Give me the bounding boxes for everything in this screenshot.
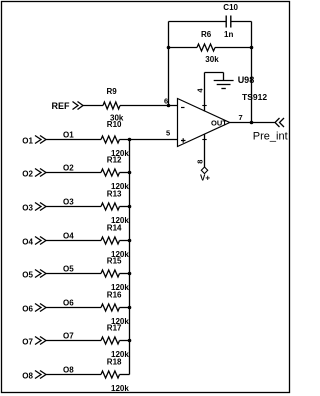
wire: O6 chevron to R16 xyxy=(46,307,101,309)
svg-text:R16: R16 xyxy=(107,291,122,300)
resistor R14 xyxy=(101,237,120,244)
svg-text:TS912: TS912 xyxy=(242,92,267,102)
junction: feedback at output node xyxy=(250,121,254,125)
wire: O1/R10 to op-amp pin 5 xyxy=(120,139,178,141)
port connector O7 (off-page chevron) xyxy=(35,337,46,345)
svg-text:8: 8 xyxy=(196,160,205,164)
svg-text:R12: R12 xyxy=(107,156,122,165)
svg-text:U98: U98 xyxy=(238,75,255,85)
port connector O6 (off-page chevron) xyxy=(35,304,46,312)
svg-text:R14: R14 xyxy=(107,224,122,233)
svg-text:C10: C10 xyxy=(223,3,238,12)
svg-text:O8: O8 xyxy=(63,366,74,375)
svg-text:R9: R9 xyxy=(107,87,118,96)
power symbol V+ diamond xyxy=(201,167,207,174)
svg-text:R15: R15 xyxy=(107,257,122,266)
wire: summing bus vertical xyxy=(129,140,131,375)
resistor R17 xyxy=(101,337,120,344)
junction: bus at row O7 xyxy=(128,339,132,343)
svg-text:R6: R6 xyxy=(201,30,212,39)
svg-text:R13: R13 xyxy=(107,190,122,199)
resistor R16 xyxy=(101,304,120,311)
svg-text:7: 7 xyxy=(239,113,243,122)
wire: O7 chevron to R17 xyxy=(46,340,101,342)
wire: R6 to feedback mid right segment xyxy=(215,47,252,49)
svg-text:30k: 30k xyxy=(205,55,219,64)
wire: O2 chevron to R12 xyxy=(46,172,101,174)
svg-text:O2: O2 xyxy=(63,164,74,173)
svg-text:O6: O6 xyxy=(22,304,33,313)
wire: feedback mid left segment to R6 xyxy=(169,47,198,49)
wire: O3 chevron to R13 xyxy=(46,206,101,208)
wire: feedback top left segment to C10 xyxy=(169,21,227,23)
junction: bus at row O3 xyxy=(128,205,132,209)
wire: op-amp output to off-page connector xyxy=(230,122,275,124)
svg-text:O2: O2 xyxy=(22,169,33,178)
wire: REF chevron to R9 xyxy=(83,105,103,107)
svg-text:REF: REF xyxy=(52,101,71,111)
svg-text:R18: R18 xyxy=(107,358,122,367)
wire: R15 to summing bus xyxy=(120,273,130,275)
resistor R18 xyxy=(101,371,120,378)
wire: R17 to summing bus xyxy=(120,340,130,342)
op-amp U98 triangle xyxy=(178,99,230,147)
junction: feedback at pin 6 node xyxy=(167,104,171,108)
svg-text:5: 5 xyxy=(166,129,170,138)
pin 4 tick at symbol edge xyxy=(202,105,206,107)
op-amp inverting input mark - xyxy=(181,107,185,109)
ground symbol stem xyxy=(223,73,225,81)
svg-text:O4: O4 xyxy=(63,232,74,241)
svg-text:O6: O6 xyxy=(63,299,74,308)
svg-text:O4: O4 xyxy=(22,237,33,246)
pin 8 tick at symbol edge xyxy=(202,139,206,141)
port connector O1 (off-page chevron) xyxy=(35,136,46,144)
wire: R12 to summing bus xyxy=(120,172,130,174)
resistor R13 xyxy=(101,203,120,210)
svg-text:OUT: OUT xyxy=(211,119,227,128)
port connector Pre_int (off-page chevron) xyxy=(275,118,284,127)
svg-text:R17: R17 xyxy=(107,324,122,333)
resistor R10 xyxy=(101,136,120,143)
wire: feedback right vertical xyxy=(251,22,253,123)
port connector O2 (off-page chevron) xyxy=(35,169,46,177)
wire: R18 to summing bus xyxy=(120,374,130,376)
svg-text:V+: V+ xyxy=(200,173,210,182)
svg-text:O7: O7 xyxy=(63,332,74,341)
svg-text:R10: R10 xyxy=(107,120,122,129)
resistor R15 xyxy=(101,270,120,277)
svg-text:120k: 120k xyxy=(111,384,129,393)
wire: R14 to summing bus xyxy=(120,240,130,242)
port connector REF (off-page chevron) xyxy=(73,102,84,110)
svg-text:O5: O5 xyxy=(63,265,74,274)
pin 4 power stub xyxy=(204,73,206,112)
junction: R6 left xyxy=(167,46,171,50)
wire: C10 to feedback top right segment xyxy=(231,21,252,23)
pin 8 power stub xyxy=(204,134,206,167)
junction: R6 right xyxy=(250,46,254,50)
svg-text:1n: 1n xyxy=(224,30,233,39)
wire: R13 to summing bus xyxy=(120,206,130,208)
svg-text:O1: O1 xyxy=(22,136,33,145)
port connector O8 (off-page chevron) xyxy=(35,371,46,379)
wire: R9 to op-amp pin 6 xyxy=(120,105,178,107)
wire: feedback left vertical xyxy=(168,22,170,106)
junction: bus at row O1 xyxy=(128,138,132,142)
junction: bus at row O4 xyxy=(128,239,132,243)
port connector O5 (off-page chevron) xyxy=(35,270,46,278)
ground symbol bars xyxy=(214,81,234,89)
resistor R9 xyxy=(103,102,120,109)
port connector O4 (off-page chevron) xyxy=(35,237,46,245)
port connector O3 (off-page chevron) xyxy=(35,203,46,211)
wire: O5 chevron to R15 xyxy=(46,273,101,275)
svg-text:O3: O3 xyxy=(63,198,74,207)
junction: bus at row O6 xyxy=(128,306,132,310)
svg-text:Pre_int: Pre_int xyxy=(253,131,288,143)
svg-text:O1: O1 xyxy=(63,131,74,140)
wire: R16 to summing bus xyxy=(120,307,130,309)
wire: O4 chevron to R14 xyxy=(46,240,101,242)
capacitor C10 xyxy=(226,16,231,28)
svg-text:O5: O5 xyxy=(22,270,33,279)
wire: O1 chevron to R10 xyxy=(46,139,101,141)
junction: bus at row O5 xyxy=(128,272,132,276)
resistor R6 xyxy=(197,44,215,51)
svg-text:O3: O3 xyxy=(22,203,33,212)
svg-text:O7: O7 xyxy=(22,337,33,346)
resistor R12 xyxy=(101,169,120,176)
wire: pin 4 to ground xyxy=(205,72,224,74)
svg-text:6: 6 xyxy=(164,96,168,105)
junction: bus at row O2 xyxy=(128,171,132,175)
wire: O8 chevron to R18 xyxy=(46,374,101,376)
svg-text:O8: O8 xyxy=(22,371,33,380)
op-amp non-inverting input mark + xyxy=(181,138,186,142)
